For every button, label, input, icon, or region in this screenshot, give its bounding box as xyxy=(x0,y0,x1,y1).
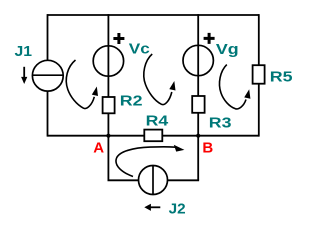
svg-text:J1: J1 xyxy=(15,43,33,60)
mesh current arrow loop 3 xyxy=(219,65,250,109)
wire J2 branch up to node B xyxy=(197,136,199,181)
wire node A down to J2 branch xyxy=(107,136,109,181)
resistor R4 xyxy=(144,130,162,142)
current source J2 xyxy=(139,166,168,195)
arrow J1 current direction xyxy=(21,67,27,84)
node A xyxy=(106,134,110,138)
node B xyxy=(196,134,200,138)
mesh current arrow loop 4 xyxy=(116,145,184,177)
svg-text:A: A xyxy=(93,139,104,156)
mesh current arrow loop 2 xyxy=(144,54,176,105)
wire bottom rail right segment xyxy=(162,135,258,137)
voltage source Vg xyxy=(183,45,213,75)
wire Vc branch through source down to R2 xyxy=(107,14,109,97)
wire R2 to node A xyxy=(107,113,109,135)
plus sign Vc polarity xyxy=(113,33,124,44)
resistor R3 xyxy=(192,96,204,113)
resistor R2 xyxy=(103,97,115,113)
plus sign Vg polarity xyxy=(204,33,215,44)
wire bottom rail left segment xyxy=(48,135,145,137)
arrow J2 current direction xyxy=(144,204,160,211)
svg-text:J2: J2 xyxy=(169,201,186,218)
wire J2 right lead xyxy=(168,179,200,181)
wire right branch upper xyxy=(258,14,260,65)
svg-text:Vc: Vc xyxy=(129,40,150,57)
wire left branch lower xyxy=(47,91,49,137)
svg-text:R5: R5 xyxy=(270,69,293,86)
svg-text:B: B xyxy=(202,139,213,156)
mesh current arrow loop 1 xyxy=(66,60,98,108)
wire J2 left lead xyxy=(108,179,139,181)
current source J1 xyxy=(32,60,63,91)
svg-text:R4: R4 xyxy=(146,112,169,129)
svg-text:R2: R2 xyxy=(120,93,143,110)
svg-text:R3: R3 xyxy=(209,114,232,131)
wire left branch upper xyxy=(47,14,49,60)
wire Vg branch through source down to R3 xyxy=(197,14,199,96)
svg-text:Vg: Vg xyxy=(216,41,239,58)
resistor R5 xyxy=(253,65,265,84)
wire R3 to node B xyxy=(197,113,199,136)
wire top rail xyxy=(48,14,259,16)
wire right branch lower xyxy=(258,84,260,137)
voltage source Vc xyxy=(93,46,123,76)
